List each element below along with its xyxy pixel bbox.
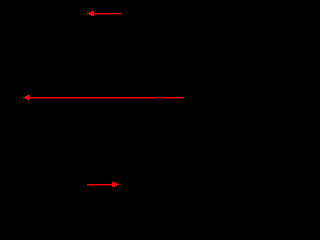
arrow A2 middle left-pointing: shaft segment left [30, 97, 158, 99]
arrow A3 bottom right-pointing: head [112, 182, 119, 187]
arrow A2 middle left-pointing: gap residue under crossing [158, 97, 161, 99]
arrow A1 top left-pointing: shaft [94, 13, 121, 15]
arrow A2 middle left-pointing: head [23, 95, 30, 100]
arrow A1 top left-pointing: head [87, 11, 94, 16]
arrow A3 bottom right-pointing: shaft [87, 184, 112, 186]
arrow A2 middle left-pointing: shaft segment right (after gap) [161, 97, 184, 99]
